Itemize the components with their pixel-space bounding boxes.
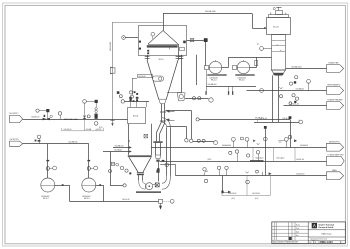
column side instrument box: [255, 61, 258, 66]
bag filter housing ZF-01: [139, 26, 187, 56]
riser pipe top elbow inner: [161, 122, 167, 128]
fan2 top tick: [243, 60, 245, 61]
stem y147 a: [233, 141, 235, 147]
drain pot arrow: [159, 206, 161, 209]
svg-text:SC-01: SC-01: [273, 27, 280, 29]
lineD elbow left: [204, 171, 208, 176]
fan1 base: [207, 74, 226, 76]
svg-text:HP-02-1: HP-02-1: [43, 198, 49, 200]
wire fan purge y86: [206, 86, 256, 88]
drain flange x222.5: [221, 191, 223, 194]
wire exhaust drop x252: [252, 14, 254, 29]
dark sq top x290: [289, 116, 292, 119]
flag4 water to scrubber: [327, 143, 344, 151]
ko duct elbow: [181, 86, 183, 93]
vent bottom tick: [110, 120, 114, 122]
dryer cone left: [147, 60, 159, 99]
ko duct flange ticks: [179, 56, 183, 58]
wire L-route2 drop: [186, 126, 188, 138]
seal T mark: [35, 140, 37, 142]
wire damper drop to fan: [205, 42, 207, 66]
logo inner mark: [313, 224, 316, 227]
fan2 base: [235, 74, 254, 76]
dryer cone outlet: [159, 99, 167, 104]
valve circle ro b: [198, 97, 201, 100]
pump1 inst tap: [49, 168, 52, 170]
wire gas inst a: [39, 110, 46, 112]
svg-text:Dormund GmbH: Dormund GmbH: [319, 227, 334, 229]
column vent circle: [273, 8, 275, 10]
circpump valve box with X: [155, 183, 159, 187]
burner lance capsule: [153, 76, 164, 81]
wire lance riser x132: [132, 78, 134, 95]
dryer right wall: [178, 44, 180, 60]
arrow y147 right: [294, 140, 296, 142]
inst circle y147 d: [284, 137, 288, 141]
quench circle a: [120, 166, 123, 169]
quench box symbol: [111, 162, 118, 166]
ticks left of d: [279, 140, 285, 142]
svg-text:1000000001: 1000000001: [210, 77, 219, 79]
tick lineD a: [262, 172, 264, 176]
pump1 flange: [46, 160, 49, 161]
venturi cone left: [129, 157, 138, 172]
stem y147 b: [247, 141, 249, 147]
svg-text:600-EA-500: 600-EA-500: [208, 83, 217, 86]
wire pump riser a: [47, 144, 49, 178]
column lid bar: [269, 15, 289, 18]
instrument circle on roof: [151, 32, 155, 36]
wire rotary discharge y98.5: [185, 98, 209, 100]
air bleed stub upper: [169, 111, 174, 113]
class bracket lineD: [222, 176, 270, 196]
pump2 inst tap: [90, 168, 93, 170]
u-seal lineD: [246, 172, 249, 173]
valve circle y141 b: [202, 139, 205, 142]
pump base hatch: [136, 191, 161, 193]
dryer cone right: [166, 60, 178, 99]
wire recirc tee y164.4: [160, 164, 175, 166]
solids stack mark: [156, 160, 159, 162]
valve circle ro a: [192, 97, 195, 100]
gas valve at x84.5: [83, 116, 87, 119]
title block outline: [272, 222, 346, 244]
venturi suction elbow outer: [139, 180, 146, 189]
svg-text:(D-1): (D-1): [99, 127, 103, 129]
solids pipe left wall: [161, 104, 163, 123]
title notes micro text: [273, 240, 299, 244]
inst circle seal: [37, 135, 41, 139]
wire gas inst d: [86, 101, 94, 103]
circle lineD low: [204, 179, 207, 182]
wire vent riser x112.5: [112, 22, 114, 123]
drain drum circle: [214, 141, 218, 145]
pump2 discharge: [96, 185, 103, 187]
instrument stem gas c: [60, 115, 62, 119]
drain arrow right: [228, 191, 230, 193]
vent damper valve: [110, 67, 115, 74]
actuated valve on gas line: [43, 115, 50, 121]
fan2 discharge: [250, 67, 257, 69]
column internal y45: [272, 45, 285, 47]
wire instrument to housing: [125, 37, 138, 39]
drain pot stem: [160, 203, 162, 206]
stem lineC a: [237, 153, 239, 161]
bottom tiny cell texts: [309, 241, 343, 244]
svg-text:100-SL-40: 100-SL-40: [122, 199, 130, 201]
svg-text:100-DR-40: 100-DR-40: [252, 193, 260, 195]
wire drop x84.5: [84, 103, 86, 115]
title block revision grid: [272, 222, 308, 240]
u-seal water line: [280, 87, 283, 88]
solids pipe flange y121: [160, 120, 166, 122]
inst stem seal: [39, 139, 41, 144]
wire L-route1 drop: [191, 110, 193, 139]
wire lance feed y78: [132, 78, 137, 80]
instrument circle gas c: [58, 112, 61, 115]
air bleed arrow lower: [166, 119, 169, 121]
wire solenoid drop a: [47, 112, 49, 119]
pilot dark square: [117, 91, 120, 94]
svg-text:1000000003: 1000000003: [41, 196, 50, 198]
circle below y147 b: [247, 154, 250, 157]
instrument circle gas a: [36, 109, 39, 112]
lance riser mark b: [133, 100, 135, 102]
instrument circle gas d: [83, 100, 87, 104]
burner lance circle: [159, 77, 162, 80]
inst circle y147 c: [263, 137, 267, 141]
lower neck right: [160, 143, 162, 155]
column body: [272, 35, 286, 71]
stem lineC b: [258, 154, 260, 161]
class bracket y147: [253, 147, 295, 161]
flange ticks right wall: [176, 57, 181, 59]
svg-text:600-EA-100: 600-EA-100: [109, 42, 112, 51]
svg-text:600-EA-500: 600-EA-500: [115, 144, 124, 147]
arrowhead into column: [264, 27, 266, 29]
wire burner manifold: [125, 101, 150, 103]
wire lineC y161: [160, 161, 327, 163]
burner inlet circle: [121, 100, 124, 103]
column drain drop x278.5: [278, 75, 280, 122]
skew duct right: [160, 123, 165, 134]
svg-text:(D-2): (D-2): [232, 198, 236, 200]
column bottom flange: [273, 73, 283, 75]
svg-text:600-EA-1400: 600-EA-1400: [205, 10, 216, 13]
flex connector b: [232, 91, 233, 95]
pump HP-02-2 circle: [82, 178, 96, 192]
skew neck left: [156, 133, 158, 141]
fan HE-20-1 circle: [209, 61, 221, 73]
regulator body: [95, 114, 98, 119]
riser pipe wall right: [170, 128, 172, 176]
svg-text:600-EA-50: 600-EA-50: [300, 144, 308, 147]
circ pump circle: [146, 183, 153, 190]
diag chain circle b: [295, 97, 298, 100]
venturi neck left: [138, 175, 140, 180]
bottom row micro lines: [310, 238, 328, 243]
riser pipe wall left: [166, 128, 168, 176]
pump1 check valve: [62, 184, 64, 186]
logo row divider: [308, 229, 345, 231]
drain pot inst circle: [170, 199, 174, 203]
svg-text:1:10: 1:10: [309, 242, 312, 244]
wire exhaust out y68.5: [286, 68, 327, 70]
lance riser circle: [131, 95, 134, 98]
tick under plate: [169, 48, 171, 50]
pilot circle b: [129, 91, 132, 94]
column top cap: [276, 11, 283, 15]
pump2 check valve: [99, 184, 101, 186]
dark sq top x265: [264, 126, 267, 129]
drain pot box: [159, 199, 163, 203]
drum circle end: [209, 98, 213, 102]
inst circle col c: [289, 82, 292, 85]
wire slurry out y105.5: [284, 105, 327, 107]
wire bottom header y201: [70, 201, 159, 203]
wire filter outlet y40: [187, 40, 204, 42]
burner manifold valves a: [129, 97, 132, 102]
burner box BU-01: [128, 108, 146, 124]
seal dark tick: [38, 140, 41, 142]
lower neck left: [155, 143, 157, 155]
flag to waste water treatment: [327, 102, 344, 110]
column head drum SC-01: [267, 18, 291, 35]
manifold drop c: [146, 101, 148, 107]
instrument on water line: [260, 89, 264, 93]
svg-text:HP-02-2: HP-02-2: [84, 198, 90, 200]
fan HE-20-2 circle: [237, 61, 249, 73]
pump HP-02-1 circle: [41, 178, 55, 192]
solids stack valve: [156, 170, 159, 173]
wire pump riser b: [88, 144, 90, 178]
regulator bonnet upper: [95, 107, 97, 109]
pump1 inst circle: [53, 166, 57, 170]
company logo square: [312, 223, 317, 228]
fan1 discharge: [222, 67, 229, 69]
circle lineD c: [256, 170, 259, 173]
venturi flange wide bar: [128, 155, 152, 157]
svg-text:CW SUPPLY: CW SUPPLY: [10, 139, 20, 141]
regulator bonnet lower: [95, 110, 97, 112]
instrument circle below regulator: [94, 122, 98, 126]
solids stack flange trapezoid: [155, 155, 160, 159]
pump2 valve: [87, 167, 90, 171]
pump2 flange: [87, 160, 90, 161]
svg-text:1000000002: 1000000002: [238, 77, 247, 79]
instrument circle right of neck: [165, 163, 169, 167]
svg-text:DWA-1-001: DWA-1-001: [320, 241, 333, 244]
burner manifold valves b: [136, 97, 139, 102]
inst circle lineD a: [217, 166, 220, 169]
pilot mark d: [136, 93, 138, 95]
flag fresh water: [327, 87, 344, 95]
wire slurry y122: [254, 122, 299, 124]
manifold drop b: [136, 101, 138, 107]
column internal x marks: [277, 44, 282, 51]
wire drop x290: [290, 119, 292, 147]
fan1 motor box: [205, 66, 209, 70]
flex connector a: [228, 91, 229, 95]
venturi neck right: [142, 175, 144, 180]
pump2 drop: [103, 185, 105, 201]
instrument stem roof: [152, 36, 154, 39]
fan2 center line: [237, 67, 249, 69]
solenoid dark square d: [95, 100, 98, 103]
skew neck right: [159, 133, 161, 141]
flag exhaust air: [327, 65, 344, 73]
wire L-route2 top: [167, 126, 186, 128]
svg-text:100-NG-50: 100-NG-50: [64, 129, 72, 131]
feed flag A: [10, 115, 23, 122]
svg-text:SP-01: SP-01: [159, 59, 164, 61]
svg-text:100-NG-50: 100-NG-50: [31, 117, 39, 119]
pipe-class bracket gas: [62, 119, 104, 131]
tiny circle gas b: [50, 115, 52, 117]
wire top duct y22: [113, 22, 164, 24]
venturi suction elbow inner: [142, 180, 145, 183]
fan1 riser: [228, 57, 230, 67]
solids stack dark mark: [157, 168, 160, 171]
air bleed arrow upper: [166, 110, 169, 112]
wire drop x265: [265, 129, 267, 176]
wire column instrument: [263, 48, 271, 50]
solenoid dark square a: [46, 109, 49, 112]
wire L-route1 top: [166, 110, 192, 112]
inst circle col b: [307, 79, 311, 83]
diag chain mark: [294, 101, 296, 103]
vent down arrow: [112, 123, 114, 126]
circle on x290: [288, 135, 291, 138]
instrument circle left of filter: [122, 36, 126, 40]
riser pipe bottom elbow inner: [162, 176, 167, 184]
duct cross mark: [128, 140, 130, 142]
svg-text:1000000004: 1000000004: [82, 196, 91, 198]
diag chain circle a: [292, 94, 295, 97]
pump1 discharge: [55, 185, 70, 187]
mark below plate a: [147, 50, 149, 52]
wire recirc corner x175.5: [175, 164, 177, 175]
venturi throat flange b: [137, 174, 144, 175]
pump2 center line: [82, 185, 96, 187]
title block divider right section: [307, 222, 309, 244]
pilot circle a: [119, 95, 122, 98]
flag5 to water treatment: [327, 156, 345, 165]
wire drop x96: [96, 103, 98, 107]
column internal y51: [272, 51, 285, 53]
nozzle mark right wall: [183, 41, 186, 44]
nozzle mark left wall lower: [139, 48, 141, 50]
lineC start dark mark: [162, 160, 165, 161]
wire exhaust header y13.5: [163, 13, 252, 15]
svg-text:NG SUPPLY: NG SUPPLY: [10, 113, 20, 115]
inst circle lineC b: [256, 151, 259, 154]
bottom row cell lines: [308, 241, 345, 244]
svg-text:600-EA-500: 600-EA-500: [69, 141, 78, 144]
neck flange bar: [153, 141, 162, 143]
circle below water line: [280, 95, 283, 98]
svg-text:Rev: Rev: [296, 235, 299, 237]
wire duct out y147: [151, 147, 326, 149]
damper dark square: [204, 38, 208, 42]
u-seal y147: [257, 143, 260, 144]
ko duct wall b: [196, 55, 198, 85]
riser pipe bottom elbow outer: [162, 176, 170, 190]
instrument dot: [123, 37, 124, 38]
pilot mark c: [134, 91, 136, 93]
svg-text:P&ID Dryer: P&ID Dryer: [321, 233, 331, 235]
venturi throat flange a: [137, 172, 144, 173]
duct wall left: [128, 124, 130, 155]
column instrument circle: [260, 47, 264, 51]
svg-text:(D-3): (D-3): [255, 198, 259, 200]
svg-text:Name: Name: [296, 224, 300, 226]
rotary valve hopper: [177, 93, 185, 101]
circle below lineD: [246, 180, 250, 184]
inner box right of plate: [180, 48, 185, 51]
stem y147 d: [286, 141, 288, 147]
column vent cap bar: [276, 7, 281, 9]
svg-text:100-SL-40: 100-SL-40: [296, 159, 304, 161]
revision tiny texts: [296, 224, 300, 237]
recycle left end circle: [196, 118, 199, 121]
svg-text:100-SL-50: 100-SL-50: [291, 103, 299, 105]
solids pipe right wall: [164, 104, 166, 123]
arrow lineD: [269, 173, 271, 175]
wire gas line y119: [23, 119, 128, 121]
svg-text:HE-20-2: HE-20-2: [239, 79, 245, 81]
wire seal line right y147: [113, 147, 130, 149]
column internal y40: [272, 40, 285, 42]
stem lineD b: [226, 170, 228, 176]
circ pump discharge stub: [153, 184, 155, 186]
wire y141 to drain drum: [193, 141, 214, 143]
wire drain stub y192: [223, 192, 229, 194]
slurry class bracket: [258, 120, 300, 122]
inst circle y147 a: [232, 137, 236, 141]
wire quench line y151.5: [103, 151, 130, 153]
wire water out y90.5: [247, 90, 327, 92]
wire lineD y175.7: [176, 175, 327, 177]
circle on quench drop: [109, 170, 112, 173]
column drain drop x272: [272, 75, 274, 122]
riser pipe top elbow outer: [162, 118, 170, 129]
inst circle lineD b: [225, 166, 228, 169]
arrow into duct y151.5: [129, 151, 131, 153]
inst circle y147 b: [245, 137, 249, 141]
quench mark c: [129, 172, 131, 174]
check valve tick y147: [253, 140, 255, 142]
skew duct left: [156, 123, 161, 134]
wire solids takeoff y92.5: [167, 92, 181, 94]
circ pump center: [149, 185, 151, 187]
flex connector motor: [205, 91, 206, 95]
label lineC dark seg: [250, 160, 264, 162]
pump1 valve: [46, 167, 49, 171]
svg-text:(562): (562): [208, 159, 212, 161]
svg-text:100-NG-50: 100-NG-50: [138, 76, 146, 78]
circle L-route2 end: [185, 139, 188, 142]
svg-text:BU-01: BU-01: [133, 116, 138, 118]
fan1 center line: [209, 67, 221, 69]
circle L-route1 end: [190, 139, 193, 142]
svg-text:NATURAL GAS: NATURAL GAS: [64, 118, 79, 121]
rotary valve circle: [179, 95, 183, 99]
column lid nozzle ticks: [271, 13, 286, 15]
fan2 riser: [256, 57, 258, 67]
valve circle y141 a: [197, 139, 200, 142]
arrow into duct y147: [129, 147, 131, 149]
